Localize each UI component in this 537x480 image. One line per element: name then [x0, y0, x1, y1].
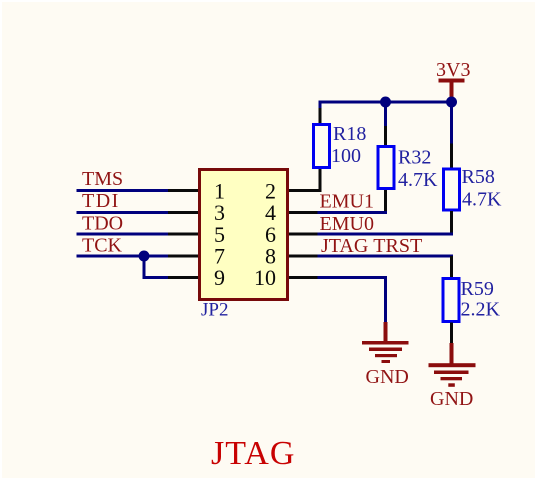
label value 4.7K — [398, 169, 438, 191]
resistor R32 — [378, 126, 394, 214]
svg-text:R32: R32 — [398, 147, 431, 169]
label net EMU0 — [320, 213, 374, 235]
resistor R58 — [444, 144, 460, 236]
svg-text:10: 10 — [254, 265, 276, 290]
label net TDI — [82, 190, 120, 212]
svg-text:R59: R59 — [461, 278, 494, 300]
label designator JP2 — [201, 300, 228, 321]
resistor R59 — [443, 279, 459, 344]
label designator R18 — [333, 123, 366, 145]
svg-text:2.2K: 2.2K — [461, 299, 501, 321]
pin 9 of JP2 — [168, 276, 198, 279]
wire R18 bottom to pin 2 — [319, 169, 322, 192]
svg-text:100: 100 — [331, 145, 361, 167]
pin number 6 — [265, 222, 276, 247]
wire EMU1 net — [318, 211, 388, 214]
svg-text:R18: R18 — [333, 123, 366, 145]
label net GND left — [366, 366, 409, 388]
pin number 10 — [254, 265, 276, 290]
ground symbol under pin10 — [362, 322, 409, 363]
label designator R58 — [462, 166, 495, 188]
svg-text:GND: GND — [430, 388, 473, 410]
wire rail to R32 — [384, 102, 387, 127]
resistor R18 — [314, 106, 330, 168]
wire TMS net — [77, 189, 170, 192]
ground symbol under R59 — [429, 343, 476, 387]
label net EMU1 — [320, 191, 374, 213]
pin 1 of JP2 — [168, 189, 198, 192]
wire TRST to R59 — [450, 256, 453, 278]
svg-text:4.7K: 4.7K — [398, 169, 438, 191]
svg-text:4.7K: 4.7K — [462, 189, 502, 211]
pin 2 of JP2 — [289, 189, 322, 192]
pin number 2 — [265, 179, 276, 204]
svg-text:EMU1: EMU1 — [320, 191, 374, 213]
svg-text:TCK: TCK — [82, 235, 123, 257]
pin number 7 — [214, 244, 225, 269]
pin number 8 — [265, 244, 276, 269]
pin 8 of JP2 — [289, 255, 319, 258]
pin number 9 — [214, 265, 225, 290]
svg-text:JTAG TRST: JTAG TRST — [321, 235, 422, 257]
pin 6 of JP2 — [289, 233, 319, 236]
pin number 5 — [214, 222, 225, 247]
svg-text:JTAG: JTAG — [211, 435, 295, 472]
pin number 3 — [214, 200, 225, 225]
title JTAG — [211, 435, 295, 472]
svg-text:GND: GND — [366, 366, 409, 388]
pin number 4 — [265, 200, 276, 225]
wire pin10 to GND — [318, 276, 388, 324]
pin 5 of JP2 — [168, 233, 198, 236]
junction dot rail-3V3-R58 — [446, 97, 457, 108]
pin 7 of JP2 — [168, 255, 198, 258]
wire JTAG TRST net — [318, 255, 454, 258]
pin 10 of JP2 — [289, 276, 319, 279]
label value 2.2K — [461, 299, 501, 321]
label net JTAG TRST — [321, 235, 422, 257]
connector JP2 body — [200, 170, 288, 300]
wire 3V3 rail — [319, 101, 454, 109]
wire rail to R58 — [450, 102, 453, 145]
wire TCK branch to pin 9 — [143, 256, 170, 278]
label value 100 — [331, 145, 361, 167]
label net TMS — [82, 168, 123, 190]
pin 3 of JP2 — [168, 211, 198, 214]
svg-text:3V3: 3V3 — [436, 59, 470, 81]
svg-text:EMU0: EMU0 — [320, 213, 374, 235]
svg-text:TMS: TMS — [82, 168, 123, 190]
label designator R59 — [461, 278, 494, 300]
power 3V3 symbol — [439, 79, 465, 101]
svg-text:R58: R58 — [462, 166, 495, 188]
wire TCK net — [77, 255, 170, 258]
label designator R32 — [398, 147, 431, 169]
label value 4.7K — [462, 189, 502, 211]
label net GND right — [430, 388, 473, 410]
svg-text:TDO: TDO — [82, 213, 123, 235]
svg-text:9: 9 — [214, 265, 225, 290]
wire EMU0 net — [318, 233, 454, 236]
label net 3V3 — [436, 59, 470, 81]
svg-text:TDI: TDI — [82, 190, 120, 212]
wire TDO net — [77, 233, 170, 236]
junction dot on TCK wire — [139, 251, 150, 262]
pin 4 of JP2 — [289, 211, 319, 214]
wire TDI net — [77, 211, 170, 214]
svg-text:JP2: JP2 — [201, 300, 228, 321]
label net TCK — [82, 235, 123, 257]
junction dot rail-R32 — [380, 97, 391, 108]
pin number 1 — [214, 179, 225, 204]
label net TDO — [82, 213, 123, 235]
